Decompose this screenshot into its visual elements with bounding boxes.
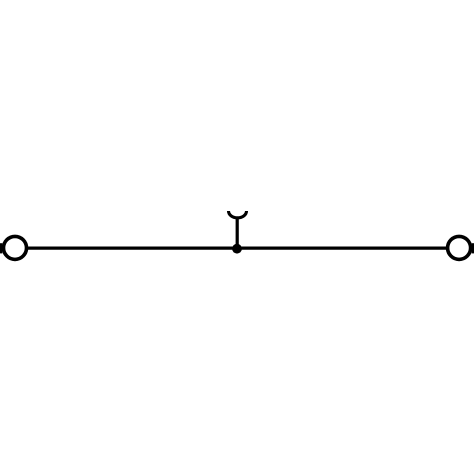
- terminal clamp left: [4, 236, 27, 259]
- right edge conductor mark: [472, 243, 474, 253]
- test tap stub: [236, 217, 239, 248]
- left edge conductor mark: [0, 243, 2, 253]
- test socket arc: [229, 211, 247, 218]
- junction node: [232, 244, 242, 254]
- wire: [0, 247, 474, 250]
- terminal clamp right: [448, 236, 471, 259]
